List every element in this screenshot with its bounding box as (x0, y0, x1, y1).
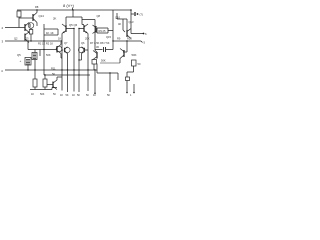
resistor R13 (25, 58, 31, 71)
transistor Q1 (33, 10, 37, 26)
svg-text:50: 50 (138, 62, 141, 66)
transistor Q20 (120, 41, 127, 63)
node junction 79-60 (78, 59, 79, 60)
resistor R9 box (97, 28, 113, 33)
resistor R1 (17, 11, 33, 28)
wire V- rail (5, 69, 97, 71)
wire right bottom L (127, 66, 134, 77)
node R12 label (52, 72, 55, 76)
resistor R5 box (44, 29, 58, 35)
svg-text:1K: 1K (60, 94, 63, 97)
node base junction A (73, 28, 74, 29)
wire bias tee (66, 10, 84, 25)
node junction 127-41 (126, 40, 127, 41)
svg-text:Q5: Q5 (17, 53, 21, 57)
svg-text:1K: 1K (72, 94, 75, 97)
wire bottom left rail (30, 88, 57, 90)
wire stub 67 (67, 70, 69, 92)
node RQ label (17, 53, 21, 57)
node junction 30-41 (30, 40, 31, 41)
svg-text:20K: 20K (85, 37, 90, 41)
resistor R12 (32, 53, 37, 71)
node R9b label (117, 37, 121, 41)
node Q13 label (129, 20, 134, 24)
node R10 label (127, 37, 132, 41)
svg-text:50K: 50K (46, 53, 51, 57)
svg-text:+: + (20, 59, 22, 63)
node pin 4 terminal (1, 69, 3, 73)
node R4 label (97, 14, 101, 18)
svg-text:50: 50 (53, 93, 56, 96)
node junction input3 (27, 40, 28, 41)
transistor Q5L (62, 24, 74, 34)
node junction 44 (43, 40, 44, 41)
node text row right (90, 41, 110, 45)
node 20K label (85, 37, 90, 41)
node base junction B (78, 28, 79, 29)
transistor Q7 (56, 41, 62, 58)
node 1K label (58, 37, 61, 41)
wire V+ top rail (17, 9, 131, 11)
node junction 61 (60, 40, 61, 41)
wire output pair verticals (117, 13, 127, 30)
wire center vertical B (78, 29, 80, 71)
svg-text:5K: 5K (66, 94, 69, 97)
transistor Q22 bottom (47, 77, 62, 90)
wire base drop (28, 41, 40, 56)
transistor Q2 (25, 23, 29, 33)
node R12b label (101, 59, 106, 63)
wire right column vertical (94, 20, 96, 51)
resistor RSC box (126, 77, 130, 81)
node Q1 label (35, 5, 44, 18)
svg-text:5K: 5K (107, 94, 110, 97)
wire input 2 (5, 27, 25, 29)
node Q2 label (14, 37, 18, 41)
transistor Q11 circle (62, 47, 70, 70)
svg-text:R9: R9 (117, 37, 121, 41)
resistor R2 bottom (43, 75, 47, 90)
node emitter junction (28, 32, 29, 33)
wire stub 62 (61, 70, 63, 91)
svg-text:8 (V+): 8 (V+) (63, 3, 75, 8)
wire center vertical A (73, 29, 75, 71)
node junction dots rail (27, 69, 95, 75)
svg-text:R11: R11 (51, 67, 56, 71)
node R11 label (51, 67, 56, 71)
node junction 113-41 (112, 40, 113, 41)
wire stub 134 (133, 84, 135, 92)
wire offset line 5 (113, 40, 141, 42)
svg-text:5K: 5K (52, 72, 55, 76)
svg-text:(7): (7) (140, 13, 143, 17)
node 4K label (118, 22, 121, 26)
transistor Q12 circle (78, 47, 88, 60)
node bottom labels left (31, 93, 56, 96)
transistor Q6R (79, 24, 88, 34)
node R6 R8 label (69, 23, 78, 27)
resistor R1 bottom (33, 70, 37, 90)
capacitor C1 plus (20, 59, 22, 63)
node junction 110-73 (109, 72, 110, 73)
node junction dot V+ (36, 9, 132, 11)
node Q3 label (25, 37, 29, 41)
svg-text:Q15: Q15 (106, 35, 111, 39)
svg-text:R7 4.5K R8 7.5K: R7 4.5K R8 7.5K (90, 41, 110, 45)
node 50K label (132, 53, 137, 57)
node text row left (38, 42, 53, 46)
svg-text:1K: 1K (58, 37, 61, 41)
wire output (131, 30, 143, 34)
svg-text:1: 1 (130, 94, 132, 97)
transistor Q3 (25, 32, 29, 43)
svg-text:1K: 1K (31, 93, 34, 96)
svg-text:R8: R8 (35, 5, 39, 9)
svg-text:R1 1K R2 1K: R1 1K R2 1K (38, 42, 53, 46)
wire stub 95 (94, 70, 96, 93)
svg-text:Q2: Q2 (14, 37, 18, 41)
svg-text:Q5 Q6: Q5 Q6 (69, 23, 78, 27)
svg-text:4: 4 (1, 69, 3, 73)
wire V+ tick (72, 8, 74, 11)
transistor Q15 (93, 25, 97, 34)
svg-text:Q3: Q3 (25, 37, 29, 41)
wire right rail drop (130, 10, 132, 30)
node bottom terminal 1 (126, 92, 128, 94)
wire y63 link (100, 62, 120, 64)
svg-text:R9 25: R9 25 (99, 29, 106, 33)
svg-text:Q13: Q13 (129, 20, 134, 24)
wire right collector drop (87, 34, 89, 71)
svg-text:2K: 2K (53, 17, 57, 21)
resistor R11 right (132, 60, 141, 66)
svg-text:5: 5 (144, 41, 146, 45)
node pin 3 terminal (2, 40, 4, 44)
node pin 7 terminal (131, 12, 143, 17)
svg-text:5K: 5K (77, 94, 80, 97)
wire offset stub 110 (109, 73, 111, 92)
wire left collector drop (61, 34, 63, 71)
wire bottom step (97, 64, 118, 81)
node 2k label (53, 17, 57, 21)
node bottom terminal 5 (133, 92, 135, 94)
svg-text:6: 6 (145, 32, 147, 36)
svg-text:Q7: Q7 (64, 41, 68, 45)
node pin 6 terminal (143, 32, 147, 36)
resistor R3 (29, 30, 33, 42)
node V+ label (63, 3, 75, 8)
svg-text:Q6: Q6 (81, 41, 85, 45)
wire stub 74 (73, 70, 75, 92)
wire second bus (44, 74, 90, 76)
wire stub 127 (126, 81, 128, 93)
transistor Q8 circle (28, 23, 34, 30)
node Q15 label (106, 35, 111, 39)
wire input 3 (5, 40, 60, 42)
wire right column feed (82, 19, 95, 21)
svg-text:4K: 4K (118, 22, 121, 26)
node Q5 Q7 labels (64, 41, 85, 45)
wire right inner vertical (112, 10, 114, 50)
capacitor C1 (95, 45, 113, 52)
node pin 5 terminal (141, 41, 146, 45)
svg-text:3: 3 (2, 40, 4, 44)
node pin 2 terminal (2, 26, 4, 30)
svg-text:Q8: Q8 (97, 14, 101, 18)
svg-text:50: 50 (86, 94, 89, 97)
svg-text:1K 1K: 1K 1K (46, 31, 54, 35)
transistor Q16 (93, 50, 97, 60)
svg-text:2: 2 (2, 26, 4, 30)
svg-text:50K: 50K (132, 53, 137, 57)
svg-text:50K: 50K (101, 59, 106, 63)
svg-text:1K: 1K (93, 94, 96, 97)
wire stub 79 (78, 70, 80, 92)
wire center-left vertical (43, 24, 45, 75)
wire stub 88 (87, 70, 89, 91)
svg-text:Q14: Q14 (39, 14, 45, 18)
wire mid horizontal (38, 49, 57, 51)
node bottom labels mid (60, 94, 132, 97)
transistor Q14 out (123, 29, 131, 39)
svg-text:50K: 50K (40, 93, 45, 96)
svg-text:30: 30 (96, 45, 99, 49)
svg-text:R10: R10 (127, 37, 132, 41)
resistor R16 (92, 60, 97, 71)
node Q10 label (115, 16, 120, 20)
